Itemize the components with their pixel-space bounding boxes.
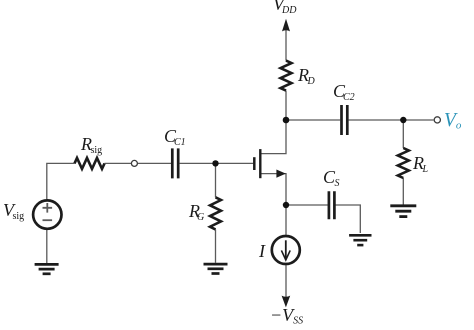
wire R_sig to input terminal: [105, 162, 132, 164]
label C_C1: [164, 127, 186, 148]
wire C_C1 to gate: [180, 162, 254, 164]
wire V_sig top to R_sig: [47, 163, 75, 199]
node at drain: [283, 117, 290, 124]
label R_G: [189, 202, 204, 223]
resistor R_G: [210, 197, 221, 229]
node at gate/R_G: [212, 160, 218, 166]
wire current source to VSS arrow: [285, 265, 287, 297]
label C_C2: [333, 82, 355, 103]
ground below C_S: [349, 235, 371, 245]
label V_DD: [273, 0, 296, 16]
wire VDD arrow to R_D: [285, 30, 287, 61]
label R_D: [298, 66, 315, 87]
wire drain node to C_C2: [286, 119, 340, 121]
VDD supply arrow: [282, 19, 290, 32]
wire output node to R_L: [402, 120, 404, 148]
label V_sig: [3, 201, 24, 222]
resistor R_L: [398, 148, 409, 178]
wire C_S to ground corner: [336, 205, 361, 233]
label C_S: [323, 168, 340, 189]
wire source node to C_S: [286, 204, 328, 206]
wire source of Q1 down to node: [261, 174, 286, 205]
capacitor C_S: [329, 191, 335, 219]
transistor Q1 channel bar: [259, 149, 261, 178]
output terminal circle: [434, 117, 440, 123]
node at source: [283, 202, 289, 208]
wire R_L to ground: [402, 178, 404, 205]
wire terminal to C_C1: [138, 162, 171, 164]
current source I: [272, 236, 300, 264]
label R_sig: [81, 135, 102, 156]
source V_sig: [33, 200, 61, 228]
label R_L: [413, 154, 428, 175]
-VSS supply arrow: [282, 296, 291, 308]
resistor R_sig: [75, 158, 105, 169]
label V_o: [444, 111, 461, 132]
wire C_C2 to output terminal: [349, 119, 434, 121]
wire R_D to drain node: [285, 91, 287, 120]
wire V_sig bottom to ground: [46, 230, 48, 263]
node at output/R_L: [400, 117, 406, 123]
label -V_SS: [270, 306, 303, 327]
wire drain of Q1: [261, 120, 286, 154]
capacitor C_C1: [172, 148, 178, 178]
wire R_G to ground: [215, 229, 217, 262]
transistor Q1 gate bar: [253, 157, 256, 170]
ground below R_G: [204, 264, 228, 273]
ground below R_L: [390, 206, 416, 217]
wire node to R_G: [215, 163, 217, 197]
ground below V_sig: [35, 264, 59, 273]
wire source node to current source: [285, 205, 287, 235]
resistor R_D: [281, 61, 292, 91]
transistor Q1 source arrow: [276, 170, 285, 178]
label I: [259, 242, 265, 260]
input terminal circle: [131, 160, 137, 166]
capacitor C_C2: [342, 105, 348, 135]
